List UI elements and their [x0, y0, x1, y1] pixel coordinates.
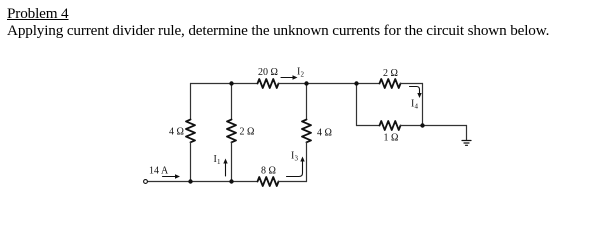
current arrow 14A	[163, 176, 177, 178]
wire lower-right rail segment 1	[357, 125, 380, 127]
svg-text:2 Ω: 2 Ω	[383, 68, 398, 79]
svg-text:4 Ω: 4 Ω	[317, 128, 332, 139]
resistor R 1ohm	[380, 121, 401, 130]
wire 2ohm branch lower	[231, 143, 233, 182]
node dot top right net	[354, 81, 358, 85]
current arrow I2	[281, 77, 294, 79]
wire left vertical upper (4ohm branch)	[190, 84, 192, 120]
current arrow I4	[410, 87, 420, 95]
svg-text:4: 4	[415, 103, 419, 111]
wire bottom rail	[148, 181, 258, 183]
terminal open circle	[144, 180, 148, 184]
svg-text:20 Ω: 20 Ω	[258, 67, 278, 78]
svg-text:2: 2	[301, 71, 305, 79]
node dot bottom left	[188, 179, 192, 183]
wire top rail segment 2	[279, 83, 380, 85]
wire 4ohm right branch lower	[306, 143, 308, 182]
wire top rail segment 1	[191, 83, 258, 85]
node dot top 4ohm branch	[304, 81, 308, 85]
current arrow I1	[225, 162, 227, 176]
wire ground stem	[466, 126, 468, 141]
current arrow I3	[287, 160, 303, 177]
ground	[462, 141, 471, 146]
resistor R 2ohm middle	[227, 120, 236, 143]
svg-text:2 Ω: 2 Ω	[240, 127, 255, 138]
wire 4ohm right branch upper	[306, 84, 308, 120]
wire 2ohm branch upper	[231, 84, 233, 120]
resistor R 2ohm top-right	[380, 79, 401, 88]
node dot bottom 2ohm branch	[229, 179, 233, 183]
svg-text:14 A: 14 A	[149, 166, 169, 177]
wire bottom rail right	[279, 181, 307, 183]
svg-text:3: 3	[295, 155, 299, 163]
svg-text:1: 1	[217, 158, 221, 166]
resistor R 4ohm left	[186, 120, 195, 143]
svg-text:8 Ω: 8 Ω	[261, 166, 276, 177]
wire top rail segment 3	[401, 83, 423, 85]
resistor R 20ohm	[258, 79, 279, 88]
wire right corner vertical	[422, 84, 424, 126]
svg-text:1 Ω: 1 Ω	[384, 133, 399, 144]
wire right net left vertical	[356, 84, 358, 126]
wire lower-right rail segment 2	[401, 125, 467, 127]
resistor R 4ohm right	[302, 120, 311, 143]
wire left vertical lower	[190, 143, 192, 182]
node dot top 2ohm branch	[229, 81, 233, 85]
resistor R 8ohm	[258, 177, 279, 186]
node dot lower right	[420, 123, 424, 127]
svg-text:4 Ω: 4 Ω	[169, 127, 184, 138]
